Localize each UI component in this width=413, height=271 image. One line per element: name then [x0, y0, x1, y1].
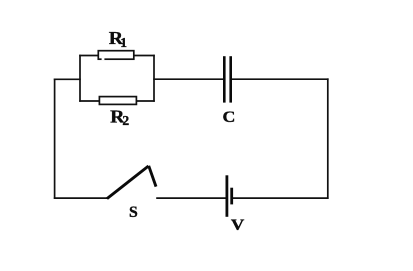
- node: left junction bar of parallel network: [79, 55, 81, 102]
- resistor R1: [98, 51, 134, 60]
- wire: segment parallel network to capacitor: [153, 78, 223, 80]
- svg-text:2: 2: [122, 113, 129, 128]
- label R1: [109, 28, 127, 50]
- capacitor C plates: [224, 56, 230, 102]
- resistor R2: [99, 97, 136, 105]
- battery V plates: [227, 175, 232, 217]
- svg-text:C: C: [223, 108, 236, 126]
- wire: bottom branch right of R2: [136, 100, 155, 102]
- wire: left connector from loop to parallel network: [54, 78, 81, 80]
- wire: right vertical side of loop: [327, 78, 329, 198]
- svg-text:1: 1: [120, 35, 127, 50]
- wire: top branch right of R1: [134, 55, 155, 57]
- wire: top branch left of R1: [79, 55, 99, 57]
- label R2: [110, 107, 129, 129]
- wire: left vertical side of loop: [54, 79, 56, 199]
- node: right junction bar of parallel network: [153, 55, 155, 102]
- wire: top right segment capacitor to corner: [232, 78, 329, 80]
- switch S blade: [107, 166, 156, 199]
- wire: bottom left segment to switch: [54, 197, 108, 199]
- svg-text:S: S: [129, 204, 138, 221]
- wire: bottom segment switch to battery: [156, 197, 225, 199]
- svg-text:V: V: [231, 217, 245, 234]
- wire: bottom branch left of R2: [79, 100, 100, 102]
- wire: bottom right segment battery to corner: [233, 197, 329, 199]
